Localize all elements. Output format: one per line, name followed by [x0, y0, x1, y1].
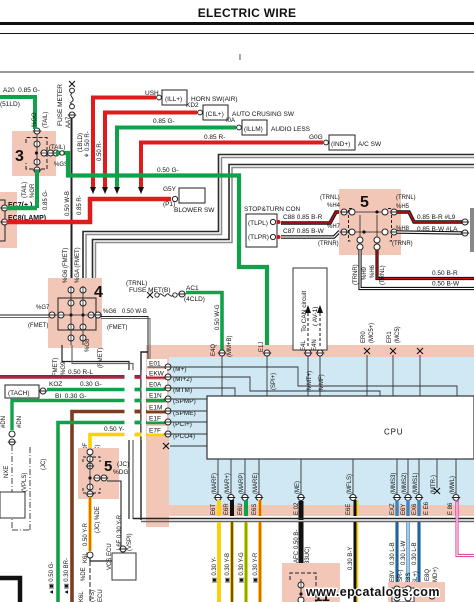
connector E8 pins: [394, 586, 435, 601]
labels E8V SR- E8S SL+ E8Q MD+: [390, 567, 439, 586]
svg-text:EXZ: EXZ: [390, 503, 396, 515]
connector 5 pins bottom: [357, 237, 380, 250]
CPU pin E1M: [147, 403, 196, 417]
svg-text:▲▣ 0.30 BR-: ▲▣ 0.30 BR-: [64, 558, 70, 595]
svg-text:(VSPI): (VSPI): [127, 533, 133, 551]
label 0.85 R- G0G: [204, 134, 323, 141]
wire BI 0.30 G-: [12, 401, 165, 431]
wire 0.50 B-W down-right: [360, 250, 474, 289]
svg-text:(FMET): (FMET): [107, 325, 127, 331]
connector 3 body: [12, 131, 56, 176]
svg-text:0.85 B-R #L9: 0.85 B-R #L9: [417, 214, 456, 221]
svg-text:E1N: E1N: [149, 393, 162, 400]
title underline thick: [0, 22, 474, 25]
svg-text:( AV-1): ( AV-1): [312, 307, 319, 326]
wire ILL+ red riser: [93, 98, 156, 189]
svg-text:G0G: G0G: [309, 134, 323, 141]
svg-text:(TRNR): (TRNR): [353, 264, 359, 285]
svg-text:0.50 B-W: 0.50 B-W: [432, 281, 460, 288]
svg-text:%G6: %G6: [103, 309, 117, 315]
svg-text:%GO: %GO: [32, 112, 38, 127]
svg-text:%G6 (FMET): %G6 (FMET): [63, 248, 69, 283]
svg-text:(MMT+): (MMT+): [307, 371, 313, 392]
svg-text:(MMS1): (MMS1): [413, 473, 419, 494]
label %DE: [81, 567, 87, 581]
connector 3 pins: [33, 128, 60, 173]
svg-text:I0A: I0A: [226, 118, 235, 124]
svg-text:▣ 0.30 Y-R: ▣ 0.30 Y-R: [253, 552, 259, 583]
labels around connector 5 right: [392, 195, 416, 247]
arrowheads on risers: [90, 187, 144, 194]
svg-text:E4N: E4N: [312, 339, 318, 351]
right edge connector bar: [470, 208, 474, 252]
svg-text:(MC5): (MC5): [395, 326, 401, 343]
label (TAIL) %GS right of connector 3: [49, 145, 68, 168]
svg-text:0.50 Y-R: 0.50 Y-R: [83, 522, 89, 546]
CPU internal traces: [171, 367, 457, 434]
label KD2: [186, 102, 199, 109]
wire green EC7: [7, 206, 37, 211]
svg-text:(MMF): (MMF): [319, 374, 325, 392]
wire %G7 W-B left: [0, 315, 49, 318]
wire 0.50 G- from connector3: [56, 153, 267, 350]
connector 5 JC body: [78, 448, 129, 499]
splice circle on yellow: [87, 552, 93, 558]
svg-text:%H5: %H5: [396, 204, 410, 210]
stop turn box: [246, 214, 277, 247]
CPU pin E1N: [147, 391, 196, 405]
svg-text:ER0: ER0: [361, 331, 367, 343]
svg-text:C88 0.85 B-R: C88 0.85 B-R: [283, 214, 323, 221]
svg-text:E01: E01: [149, 361, 161, 368]
label 0.50 W-B vertical: [65, 191, 71, 216]
label STOP&TURN CON: [244, 206, 301, 213]
TACH box: [5, 385, 47, 398]
blower sw box: [172, 188, 215, 214]
wire drop E6U Y-G: [244, 522, 248, 602]
svg-text:E7F: E7F: [149, 428, 161, 435]
fuse MET(B) labels: [126, 280, 171, 294]
VCS ECU box: [107, 543, 136, 580]
wire 0.85 G- A20 to connector 3: [0, 97, 35, 129]
wire 0.85 B-R #L9: [397, 212, 469, 225]
svg-text:0.50 B-R: 0.50 B-R: [432, 270, 458, 277]
labels around connector 5 left: [318, 195, 341, 247]
E1J pin: [259, 342, 277, 396]
labels above connector 4: [63, 247, 81, 283]
svg-text:(VS): (VS): [90, 590, 96, 602]
svg-text:EX6: EX6: [412, 503, 418, 515]
svg-text:(SPI+): (SPI+): [271, 373, 277, 390]
svg-text:(FMET): (FMET): [53, 358, 59, 378]
fuse MET(B) symbol: [147, 291, 186, 298]
CPU bottom labels in blue: [212, 473, 456, 494]
CPU pin E7F: [147, 426, 195, 440]
wire green PCI+: [58, 423, 165, 602]
labels 0.50 B-R / 0.50 B-W: [432, 270, 460, 288]
svg-text:L6F 0.30 Y-R: L6F 0.30 Y-R: [117, 514, 123, 550]
label E4Q (MM+B) vertical: [211, 336, 233, 358]
wire 0.85 G- connector3 down to EC7: [35, 170, 39, 208]
wire W-B meter bus inner: [89, 165, 474, 291]
CPU bottom pin traces: [218, 459, 456, 495]
svg-text:0.30 B-Y: 0.30 B-Y: [348, 547, 354, 570]
wire 0.50 R-L: [0, 376, 165, 377]
labels K6L 0.50 Y-R (JC)%DE: [83, 506, 101, 563]
wire C87 0.85 B-W: [281, 232, 342, 237]
svg-text:E4Q: E4Q: [211, 344, 217, 356]
watermark: [305, 585, 440, 599]
svg-text:A20 0.85 G-: A20 0.85 G-: [3, 87, 40, 94]
svg-text:(MFLS): (MFLS): [347, 474, 353, 494]
svg-text:(1BLD): (1BLD): [78, 133, 84, 152]
wire drop E6R Y-B: [230, 522, 234, 602]
EC connector body: [0, 192, 17, 248]
svg-text:AFC: AFC: [294, 550, 300, 563]
label 0.50 G- vertical bottom: [49, 562, 55, 595]
connector 4 body: [48, 278, 103, 348]
EC connector pins: [0, 205, 8, 225]
svg-text:0.50 W-B: 0.50 W-B: [122, 309, 147, 315]
svg-text:www.epcatalogs.com: www.epcatalogs.com: [305, 585, 440, 599]
svg-text:(TAIL): (TAIL): [49, 145, 65, 151]
svg-text:(TRNL): (TRNL): [380, 265, 386, 285]
wire 0.50 W-G E4Q: [186, 293, 222, 352]
svg-text:(MMS2): (MMS2): [402, 473, 408, 494]
label (1BLD) vertical: [78, 133, 84, 152]
svg-text:E6T: E6T: [211, 504, 217, 515]
svg-text:KD2: KD2: [186, 102, 199, 109]
svg-text:#DN: #DN: [17, 416, 23, 428]
svg-text:%DE: %DE: [81, 567, 87, 581]
fuse meter symbol: [68, 81, 76, 118]
svg-text:0.30 L-W: 0.30 L-W: [401, 540, 407, 565]
VPLS white box: [0, 492, 25, 518]
switch box (ILLM): [237, 120, 311, 135]
wire stubs on salmon band: [219, 500, 457, 520]
CPU white box: [207, 396, 474, 459]
svg-text:%H9: %H9: [362, 266, 368, 280]
label (JC) left: [41, 459, 47, 470]
wire yellow PCO4: [90, 435, 165, 451]
label %G7 (FMET) left: [28, 305, 50, 329]
svg-text:FUSE METER: FUSE METER: [57, 84, 64, 126]
connector 5 pins row2: [340, 229, 398, 235]
svg-text:(TRNR): (TRNR): [318, 241, 339, 247]
CPU pin EKW: [147, 369, 192, 383]
svg-text:0.50 G-: 0.50 G-: [157, 167, 179, 174]
svg-text:(MARF): (MARF): [212, 473, 218, 494]
svg-text:E6U: E6U: [238, 503, 244, 515]
svg-text:(TRNL): (TRNL): [126, 280, 147, 287]
labels K6L (VS) ECU vertical: [79, 589, 104, 602]
connector 11 body: [282, 563, 340, 602]
svg-text:(MM+B): (MM+B): [227, 336, 233, 358]
connector 4 pins mid row: [48, 312, 102, 318]
label 0.50 G-: [157, 167, 179, 174]
svg-text:%G9: %G9: [61, 361, 67, 375]
labels TRNR %H9 %H6 TRNL vertical: [353, 264, 386, 285]
svg-text:(IND+): (IND+): [331, 141, 350, 148]
svg-text:(JC): (JC): [117, 461, 129, 468]
label 0.85 B-W #LA: [417, 226, 458, 233]
svg-text:E6S: E6S: [252, 504, 258, 515]
svg-text:▣ 0.30 Y-B: ▣ 0.30 Y-B: [225, 553, 231, 583]
CAN dashed arrows: [305, 305, 323, 346]
white gaps at W-B crossing: [125, 370, 147, 440]
svg-text:0.85 R-: 0.85 R-: [77, 195, 83, 215]
wire %DG to VCS: [107, 481, 121, 548]
svg-text:(MMS3): (MMS3): [391, 473, 397, 494]
switch box (IND+): [324, 135, 382, 150]
E4Q pin: [218, 350, 226, 396]
svg-text:(51LD): (51LD): [0, 101, 20, 108]
svg-text:%H4: %H4: [327, 203, 341, 209]
svg-text:▣ 0.30 Y-G: ▣ 0.30 Y-G: [239, 552, 245, 583]
wire magenta E86: [457, 502, 474, 556]
svg-text:▲▣ 0.50 G-: ▲▣ 0.50 G-: [49, 562, 55, 595]
label BI 0.30 G-: [55, 393, 86, 400]
E4L E4N pins: [304, 350, 324, 396]
label A20 0.85 G-: [0, 87, 40, 108]
connector E8 body: [388, 582, 445, 602]
svg-text:C87 0.85 B-W: C87 0.85 B-W: [283, 228, 325, 235]
svg-text:(CIL+): (CIL+): [206, 111, 224, 118]
svg-text:5: 5: [104, 458, 112, 475]
svg-text:(MWL): (MWL): [450, 476, 456, 494]
label 0.85 B-R #L9: [417, 214, 456, 221]
svg-text:%H7: %H7: [327, 224, 341, 230]
svg-text:K6L: K6L: [79, 591, 85, 602]
labels AFC 0.50 B- (33UC): [294, 530, 311, 566]
connector 5 body: [339, 189, 401, 255]
svg-text:(TRNR): (TRNR): [392, 241, 413, 247]
labels on bottom salmon band: [211, 501, 454, 515]
svg-text:%G8: %G8: [85, 338, 91, 352]
svg-text:E6E: E6E: [346, 504, 352, 515]
wire 0.85 G- riser to ILLM: [117, 128, 236, 189]
label USH: [145, 90, 159, 97]
switch box (CIL+): [198, 105, 295, 120]
svg-text:(JC) %DE: (JC) %DE: [95, 506, 101, 533]
wire yellow below 5JC: [88, 497, 92, 551]
svg-text:(TAIL): (TAIL): [43, 112, 49, 128]
svg-text:E 86: E 86: [448, 502, 454, 515]
CPU pin E01: [147, 359, 187, 373]
svg-text:E4L: E4L: [301, 340, 307, 351]
svg-text:(TLPL): (TLPL): [248, 220, 268, 227]
label (TAIL) %GR vertical below connector 3: [22, 182, 49, 210]
svg-text:%H6: %H6: [370, 264, 376, 278]
svg-text:(MARP): (MARP): [239, 473, 245, 494]
wire 0.50 B-R down-right: [377, 250, 474, 279]
title ELECTRIC WIRE: [198, 6, 297, 20]
wire 0.85 B-W #LA: [397, 230, 469, 236]
svg-text:FUSE MET(B): FUSE MET(B): [129, 287, 171, 294]
svg-text:(MD+): (MD+): [433, 567, 439, 584]
switch box (ILL+): [157, 90, 238, 105]
svg-text:ECU: ECU: [98, 589, 104, 602]
svg-text:(MAR+): (MAR+): [225, 473, 231, 494]
ER0 ER1 X pins: [364, 348, 423, 396]
connector 4 pins bottom: [68, 315, 86, 345]
svg-text:G5Y: G5Y: [163, 186, 177, 193]
wire 0.85 R- riser to IND+: [141, 143, 323, 189]
svg-text:(TRNL): (TRNL): [320, 195, 340, 201]
svg-text:AUDIO LESS: AUDIO LESS: [271, 126, 311, 133]
svg-text:ELECTRIC WIRE: ELECTRIC WIRE: [198, 6, 297, 20]
labels E4L E4N: [301, 339, 318, 351]
wire drop B-Y: [355, 522, 358, 602]
svg-text:0.85 R-: 0.85 R-: [204, 134, 225, 141]
labels 0.30 L-B L-W L-B: [390, 540, 418, 565]
svg-text:0.85 G-: 0.85 G-: [43, 190, 49, 210]
label %G6 0.50 W-B right: [103, 309, 147, 315]
svg-text:0.85 B-W #LA: 0.85 B-W #LA: [417, 226, 458, 233]
label 0.85 G-: [153, 118, 235, 125]
wire W-B branch to border: [141, 352, 148, 520]
svg-text:%G7: %G7: [36, 305, 50, 311]
splice on 0.50G wire: [60, 151, 64, 155]
CPU pin E1F: [147, 414, 192, 428]
bottom-left black corner: [0, 578, 20, 602]
svg-text:KOZ: KOZ: [49, 381, 62, 388]
svg-text:E6Y: E6Y: [401, 504, 407, 515]
label 0.50 R-L: [68, 369, 93, 376]
CPU blue box: [169, 357, 474, 505]
svg-text:0.50 W-G: 0.50 W-G: [215, 304, 221, 330]
svg-text:I: I: [239, 53, 241, 62]
svg-text:(MC5+): (MC5+): [369, 323, 375, 343]
NXE pin circles: [1, 416, 23, 445]
svg-text:EKW: EKW: [149, 371, 165, 378]
svg-text:E1J: E1J: [259, 342, 265, 352]
svg-text:E8Q: E8Q: [425, 569, 431, 581]
svg-text:(MARE): (MARE): [253, 473, 259, 494]
wire KOZ 0.30 G-: [47, 388, 165, 391]
labels 0.30 Y drops: [212, 552, 259, 583]
To CAN circuit box: [293, 268, 327, 350]
labels ER0 MC5+ ER1 MC5: [361, 323, 401, 343]
AFC splice circles: [297, 564, 305, 579]
ECU salmon band: [146, 345, 474, 527]
svg-text:3: 3: [15, 148, 24, 165]
svg-text:(FMET): (FMET): [98, 348, 104, 368]
CPU pin E0A: [147, 380, 192, 394]
svg-text:E E6: E E6: [424, 501, 430, 515]
svg-text:BLOWER SW: BLOWER SW: [174, 207, 215, 214]
svg-text:E8V: E8V: [390, 571, 396, 582]
svg-text:0.50 R-L: 0.50 R-L: [68, 369, 93, 376]
svg-text:0.30 L-B: 0.30 L-B: [412, 542, 418, 565]
svg-text:%DG: %DG: [113, 469, 129, 476]
svg-text:(TAIL): (TAIL): [22, 182, 28, 198]
svg-text:E0A: E0A: [149, 382, 162, 389]
svg-text:NXE: NXE: [4, 466, 10, 478]
svg-text:(ILLM): (ILLM): [244, 126, 263, 133]
svg-text:▣ 0.30 Y-: ▣ 0.30 Y-: [212, 557, 218, 583]
connector 5JC pins: [86, 449, 108, 497]
svg-text:E1M: E1M: [149, 405, 162, 412]
wire CIL+ red riser: [105, 113, 197, 189]
label EC7(+) EC8(LAMP): [8, 202, 46, 222]
svg-text:STOP&TURN CON: STOP&TURN CON: [244, 206, 301, 213]
svg-text:(ILL+): (ILL+): [165, 96, 182, 103]
svg-text:0.30 G-: 0.30 G-: [80, 381, 102, 388]
label 0.50 R- vertical x2: [84, 131, 103, 161]
svg-text:(4CLD): (4CLD): [184, 296, 205, 303]
label 0.30 B-Y: [348, 547, 354, 570]
svg-text:(FMET): (FMET): [28, 323, 48, 329]
connector 4 pins top: [68, 286, 86, 315]
wire to VCS ECU: [90, 551, 123, 602]
svg-text:(TRNL): (TRNL): [396, 195, 416, 201]
svg-text:%GA (FMET): %GA (FMET): [75, 247, 81, 283]
section mark I: [239, 53, 241, 62]
svg-text:0.50 B-: 0.50 B-: [294, 530, 300, 549]
ECU bottom border: [133, 519, 474, 522]
svg-text:(SR-): (SR-): [398, 570, 404, 584]
CPU bottom pin circles: [214, 488, 460, 501]
label 0.85 R- vertical: [77, 195, 83, 215]
label KOZ 0.30 G-: [49, 381, 102, 388]
svg-text:ER1: ER1: [387, 331, 393, 343]
wire W-B meter bus outer: [83, 155, 474, 290]
label %GO (TAIL) vertical: [32, 112, 49, 128]
NXE dash-dot box: [4, 445, 30, 530]
labels L6F 0.30 Y-R (VSPI): [117, 514, 133, 551]
label 0.50 Y-R: [104, 426, 129, 433]
wire drops L-B L-W L-B: [397, 522, 419, 586]
label G5Y (P1): [163, 186, 177, 208]
section line: [0, 71, 474, 73]
svg-text:A/C SW: A/C SW: [358, 141, 382, 148]
wire drop AFC black: [299, 522, 304, 564]
svg-text:CPU: CPU: [384, 428, 403, 437]
label %DF (JC): [83, 442, 101, 456]
wire 0.50 W-B fuse down to connector 4: [71, 118, 73, 286]
label 0.50 W-G vertical: [215, 304, 221, 330]
wire red EC8 0.85 R-: [7, 199, 171, 222]
label C88 0.85 B-R: [283, 214, 323, 221]
svg-text:⚘ 0.50 R-: ⚘ 0.50 R-: [84, 131, 91, 158]
connector 11 pins: [298, 579, 304, 602]
wire dashes between verticals: [135, 376, 141, 435]
svg-text:0.85 G-: 0.85 G-: [153, 118, 175, 125]
wire 0.50 W-B to E01: [101, 317, 165, 368]
svg-text:E6R: E6R: [224, 503, 230, 515]
wire drop E6S Y-R: [258, 522, 262, 602]
wire brown SPME: [72, 412, 165, 602]
svg-text:(ME): (ME): [295, 481, 301, 494]
svg-text:E1F: E1F: [149, 416, 161, 423]
svg-text:5: 5: [360, 194, 369, 211]
svg-text:#DN: #DN: [1, 416, 7, 428]
svg-text:AUTO CRUSING SW: AUTO CRUSING SW: [232, 111, 295, 118]
svg-text:(TACH): (TACH): [8, 390, 30, 397]
label 0.30 BR- vertical bottom: [64, 558, 70, 595]
X pin row: [163, 443, 207, 449]
wire W-B pair down from connector 4: [62, 345, 133, 519]
svg-text:0.50 W-B: 0.50 W-B: [65, 191, 71, 216]
header thin line: [0, 33, 474, 35]
wire drop E6T yellow: [217, 522, 221, 602]
svg-text:(VPLS): (VPLS): [22, 473, 28, 492]
label FUSE METER vertical: [57, 84, 72, 128]
stop turn pins: [270, 219, 280, 239]
svg-text:0.50 R-: 0.50 R-: [97, 141, 103, 161]
label AC1 (4CLD): [184, 285, 205, 303]
